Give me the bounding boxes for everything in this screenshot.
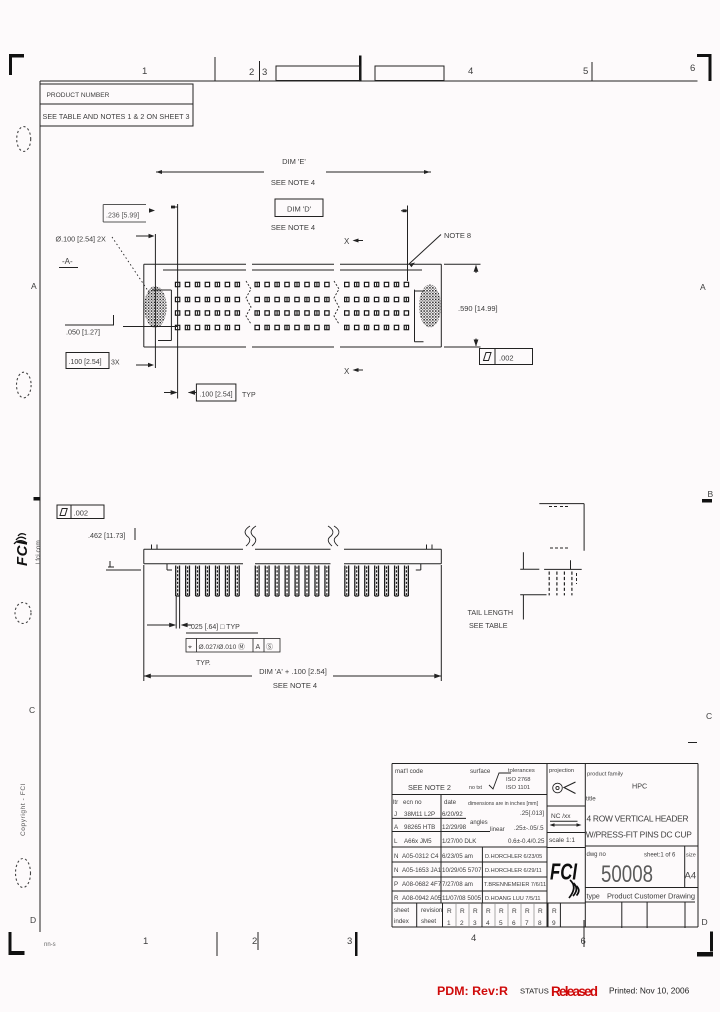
svg-text:B: B (708, 489, 714, 499)
svg-text:HPC: HPC (632, 782, 647, 791)
svg-text:surface: surface (470, 768, 491, 775)
svg-text:DIM 'A' + .100 [2.54]: DIM 'A' + .100 [2.54] (259, 667, 327, 676)
svg-text:ISO 2768: ISO 2768 (506, 777, 531, 783)
svg-text:3: 3 (347, 936, 352, 947)
svg-text:R: R (473, 908, 478, 915)
svg-text:4: 4 (468, 66, 473, 77)
svg-text:5: 5 (583, 66, 588, 77)
svg-text:type: type (587, 894, 600, 901)
svg-text:0.6±-0.4/0.25: 0.6±-0.4/0.25 (508, 838, 545, 845)
svg-text:2: 2 (252, 936, 257, 947)
svg-text:ISO 1101: ISO 1101 (506, 785, 530, 791)
svg-text:N: N (394, 867, 398, 874)
svg-text:6: 6 (512, 920, 516, 927)
svg-text:C: C (29, 705, 35, 715)
svg-text:TYP.: TYP. (196, 660, 211, 667)
svg-text:FCI: FCI (550, 859, 577, 885)
svg-text:.25[.013]: .25[.013] (520, 810, 544, 817)
svg-text:sheet: sheet (421, 918, 436, 925)
svg-text:A4: A4 (685, 871, 697, 882)
svg-text:10/29/05 5707: 10/29/05 5707 (442, 867, 482, 874)
svg-text:Released: Released (551, 984, 598, 999)
svg-text:9: 9 (552, 920, 556, 927)
svg-text:X: X (344, 367, 350, 376)
svg-text:R: R (460, 908, 465, 915)
svg-text:1/27/00 DLK: 1/27/00 DLK (442, 838, 477, 845)
svg-text:A: A (700, 282, 706, 292)
svg-text:7: 7 (525, 920, 529, 927)
svg-text:3X: 3X (111, 360, 120, 367)
svg-text:D.HORCHLER 6/23/05: D.HORCHLER 6/23/05 (485, 854, 542, 860)
svg-text:R: R (552, 908, 557, 915)
svg-text:D.HOANG LUU 7/5/11: D.HOANG LUU 7/5/11 (485, 896, 541, 902)
svg-text:no txt: no txt (469, 785, 482, 791)
svg-text:A: A (394, 824, 399, 831)
svg-text:5: 5 (499, 920, 503, 927)
svg-text:A08-0682 4F7: A08-0682 4F7 (402, 881, 442, 888)
svg-text:dimensions are in inches [mm]: dimensions are in inches [mm] (468, 801, 539, 807)
svg-text:.002: .002 (74, 509, 89, 518)
svg-text:11/07/08 5005: 11/07/08 5005 (442, 895, 482, 902)
svg-text:.25±-.05/.5: .25±-.05/.5 (514, 825, 544, 832)
svg-text:DIM 'E': DIM 'E' (282, 157, 306, 166)
svg-text:D: D (30, 915, 36, 925)
svg-text:Product Customer Drawing: Product Customer Drawing (607, 892, 695, 901)
svg-text:scale 1:1: scale 1:1 (549, 837, 575, 844)
svg-text:FCI: FCI (14, 540, 31, 566)
svg-text:P: P (394, 881, 398, 888)
svg-text:Ø.027/Ø.010 Ⓜ: Ø.027/Ø.010 Ⓜ (199, 643, 246, 651)
svg-text:SEE TABLE AND NOTES 1 & 2 ON S: SEE TABLE AND NOTES 1 & 2 ON SHEET 3 (43, 112, 190, 121)
svg-text:8: 8 (538, 920, 542, 927)
svg-text:.002: .002 (499, 354, 514, 363)
svg-text:1: 1 (143, 936, 148, 947)
svg-text:4 ROW VERTICAL HEADER: 4 ROW VERTICAL HEADER (587, 814, 689, 824)
svg-text:3: 3 (473, 920, 477, 927)
svg-text:ltr: ltr (393, 799, 398, 806)
svg-text:l.fci.com: l.fci.com (35, 540, 42, 564)
svg-text:X: X (344, 237, 350, 246)
svg-text:PDM: Rev:R: PDM: Rev:R (437, 984, 508, 998)
svg-text:.462 [11.73]: .462 [11.73] (88, 531, 125, 540)
svg-text:C: C (706, 711, 712, 721)
svg-text:12/29/98: 12/29/98 (442, 824, 467, 831)
svg-text:Ⓢ: Ⓢ (266, 643, 273, 651)
svg-text:R: R (394, 895, 399, 902)
svg-text:product family: product family (587, 772, 623, 778)
svg-text:T.BRENNEMEIER 7/6/11: T.BRENNEMEIER 7/6/11 (484, 882, 546, 888)
svg-text:ecn no: ecn no (403, 799, 422, 806)
svg-text:4: 4 (471, 933, 476, 944)
svg-text:NOTE 8: NOTE 8 (444, 231, 471, 240)
svg-text:3: 3 (262, 67, 267, 78)
svg-text:J: J (394, 811, 397, 818)
svg-text:.100 [2.54]: .100 [2.54] (200, 392, 233, 399)
svg-text:.590 [14.99]: .590 [14.99] (458, 304, 498, 313)
svg-text:angles: angles (470, 820, 488, 826)
svg-text:mat'l code: mat'l code (395, 768, 424, 775)
svg-text:Printed: Nov 10, 2006: Printed: Nov 10, 2006 (609, 986, 690, 996)
svg-text:dwg no: dwg no (587, 852, 607, 858)
svg-text:nn-s: nn-s (44, 942, 56, 948)
svg-text:98265 HTB: 98265 HTB (404, 824, 435, 831)
svg-text:6/23/05 am: 6/23/05 am (442, 853, 473, 860)
svg-text:W/PRESS-FIT PINS DC CUP: W/PRESS-FIT PINS DC CUP (586, 830, 692, 840)
svg-text:2: 2 (460, 920, 464, 927)
svg-text:A05-1653 JA1: A05-1653 JA1 (402, 867, 442, 874)
svg-text:SEE NOTE 4: SEE NOTE 4 (273, 681, 317, 690)
svg-text:sheet: sheet (394, 907, 409, 914)
svg-text:NC /xx: NC /xx (551, 813, 571, 820)
svg-text:D.HORCHLER 6/29/11: D.HORCHLER 6/29/11 (485, 868, 542, 874)
svg-text:.050 [1.27]: .050 [1.27] (66, 328, 100, 337)
svg-text:⌖: ⌖ (188, 644, 192, 651)
svg-text:.025 [.64] □ TYP: .025 [.64] □ TYP (189, 624, 240, 631)
svg-text:R: R (525, 908, 530, 915)
svg-text:size: size (686, 853, 696, 859)
svg-text:4: 4 (486, 920, 490, 927)
svg-text:projection: projection (549, 768, 574, 774)
svg-text:6/20/92: 6/20/92 (442, 811, 463, 818)
svg-text:7/27/08 am: 7/27/08 am (442, 881, 473, 888)
svg-text:50008: 50008 (601, 861, 653, 888)
svg-text:2: 2 (249, 67, 254, 78)
svg-text:revision: revision (421, 907, 443, 914)
svg-text:A05-0312 C4: A05-0312 C4 (402, 853, 439, 860)
svg-text:D: D (702, 917, 708, 927)
svg-text:1: 1 (142, 66, 147, 77)
svg-text:6: 6 (581, 936, 586, 947)
svg-text:DIM 'D': DIM 'D' (287, 205, 312, 214)
svg-text:.100 [2.54]: .100 [2.54] (69, 359, 102, 366)
svg-text:SEE NOTE 2: SEE NOTE 2 (408, 783, 451, 792)
svg-text:index: index (394, 918, 410, 925)
svg-text:SEE NOTE 4: SEE NOTE 4 (271, 178, 315, 187)
svg-text:R: R (486, 908, 491, 915)
svg-text:sheet:1 of 6: sheet:1 of 6 (644, 853, 676, 859)
svg-text:linear: linear (490, 827, 505, 833)
svg-text:1: 1 (447, 920, 451, 927)
svg-text:L: L (394, 838, 398, 845)
svg-text:-A-: -A- (62, 257, 73, 266)
svg-text:A: A (256, 644, 261, 651)
svg-text:PRODUCT NUMBER: PRODUCT NUMBER (47, 92, 110, 99)
svg-text:SEE TABLE: SEE TABLE (469, 621, 508, 630)
svg-text:SEE NOTE 4: SEE NOTE 4 (271, 223, 315, 232)
svg-text:TYP: TYP (242, 392, 256, 399)
svg-text:R: R (447, 908, 452, 915)
svg-text:date: date (444, 799, 457, 806)
svg-text:R: R (499, 908, 504, 915)
svg-text:R: R (538, 908, 543, 915)
svg-text:6: 6 (690, 63, 695, 74)
svg-text:N: N (394, 853, 398, 860)
svg-text:TAIL LENGTH: TAIL LENGTH (468, 608, 514, 617)
svg-text:A66x JM5: A66x JM5 (404, 838, 432, 845)
svg-text:A08-0942 A05: A08-0942 A05 (402, 895, 442, 902)
svg-text:38M11 L2P: 38M11 L2P (404, 811, 435, 818)
svg-text:title: title (586, 796, 596, 803)
svg-text:tolerances: tolerances (508, 768, 535, 774)
svg-text:Copyright - FCI: Copyright - FCI (20, 783, 27, 836)
svg-text:R: R (512, 908, 517, 915)
svg-text:A: A (31, 281, 37, 291)
svg-text:Ø.100 [2.54] 2X: Ø.100 [2.54] 2X (56, 235, 107, 244)
svg-text:.236 [5.99]: .236 [5.99] (106, 213, 139, 220)
svg-text:STATUS: STATUS (520, 987, 549, 996)
